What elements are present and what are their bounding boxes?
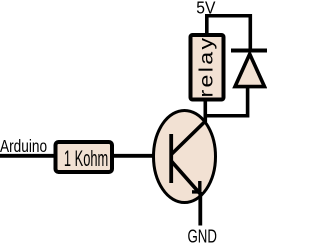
- relay coil K1: [191, 35, 224, 100]
- relay body box: [191, 35, 224, 100]
- wire emitter to ground: [198, 192, 202, 226]
- wire relay bottom to collector node: [204, 99, 208, 122]
- diode cathode bar: [231, 49, 267, 53]
- transistor collector line: [171, 122, 205, 155]
- node 5V supply label: [196, 0, 216, 18]
- wire 5V down to relay top: [205, 14, 209, 34]
- transistor emitter line: [171, 161, 199, 193]
- svg-text:Arduino: Arduino: [0, 137, 47, 156]
- resistor R1: [56, 142, 113, 172]
- emitter arrowhead horizontal barb: [192, 190, 201, 193]
- svg-text:1 Kohm: 1 Kohm: [64, 146, 108, 170]
- emitter arrowhead vertical barb: [198, 181, 201, 193]
- ground GND label: [188, 226, 217, 243]
- diode triangle: [235, 54, 265, 87]
- wire diode anode to collector node: [205, 114, 248, 118]
- wire 5V rail down to diode cathode: [249, 14, 253, 50]
- node Arduino input label: [0, 137, 47, 156]
- resistor body box: [56, 142, 113, 172]
- wire Arduino through resistor to base: [0, 154, 171, 158]
- transistor Q1 NPN: [154, 111, 216, 203]
- wire diode anode down: [246, 87, 250, 118]
- transistor base bar: [169, 134, 173, 183]
- wire 5V rail horizontal: [205, 14, 250, 18]
- diode D1 flyback: [231, 51, 267, 87]
- svg-text:relay: relay: [195, 36, 217, 98]
- transistor body circle: [154, 111, 216, 203]
- svg-text:GND: GND: [188, 226, 217, 243]
